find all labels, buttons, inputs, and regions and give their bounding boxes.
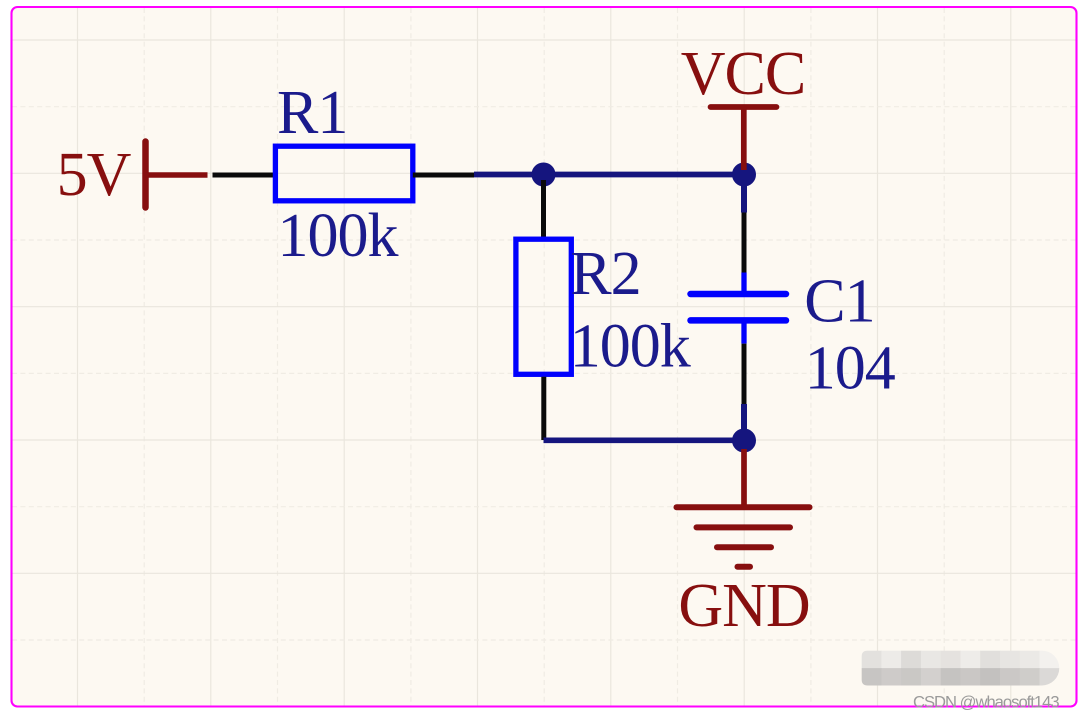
wire 5V port stub bbox=[146, 172, 208, 178]
svg-text:GND: GND bbox=[678, 572, 809, 640]
wire C1 pin 2 to node D bbox=[742, 344, 747, 433]
designator C1 bbox=[804, 267, 874, 335]
resistor R2 bbox=[516, 239, 571, 374]
svg-text:100k: 100k bbox=[278, 202, 399, 270]
svg-text:C1: C1 bbox=[804, 267, 874, 335]
label VCC bbox=[681, 40, 805, 108]
power port VCC bbox=[711, 107, 777, 170]
value 100k (R2) bbox=[570, 312, 691, 380]
junction node D bbox=[732, 429, 756, 453]
svg-text:CSDN @whaosoft143: CSDN @whaosoft143 bbox=[913, 693, 1059, 712]
svg-text:R1: R1 bbox=[277, 79, 347, 147]
wire net node C to node D bbox=[544, 437, 745, 443]
wire net node A to node B bbox=[474, 172, 744, 178]
label 5V bbox=[57, 141, 132, 209]
wire node A to R2 pin 1 bbox=[541, 180, 546, 240]
designator R2 bbox=[570, 240, 640, 308]
svg-text:104: 104 bbox=[805, 334, 896, 402]
wire 5V to R1 bbox=[213, 173, 277, 178]
value 100k (R1) bbox=[278, 202, 399, 270]
capacitor C1 bbox=[691, 273, 787, 344]
wire R2 pin 2 to node C bbox=[541, 377, 546, 440]
resistor R1 bbox=[275, 146, 412, 201]
wire node B to C1 pin 1 bbox=[742, 213, 747, 273]
svg-text:100k: 100k bbox=[570, 312, 691, 380]
svg-text:VCC: VCC bbox=[681, 40, 805, 108]
wire R1 to node A bbox=[413, 173, 474, 178]
label GND bbox=[678, 572, 809, 640]
value 104 (C1) bbox=[805, 334, 896, 402]
junction node B bbox=[732, 163, 756, 187]
wire node D to ground bbox=[741, 449, 747, 507]
power port 5V bbox=[142, 142, 149, 208]
svg-text:5V: 5V bbox=[57, 141, 132, 209]
ground GND bbox=[677, 507, 810, 567]
svg-text:R2: R2 bbox=[570, 240, 640, 308]
junction node A bbox=[532, 163, 556, 187]
designator R1 bbox=[277, 79, 347, 147]
wire node B down (net stub) bbox=[741, 175, 747, 213]
